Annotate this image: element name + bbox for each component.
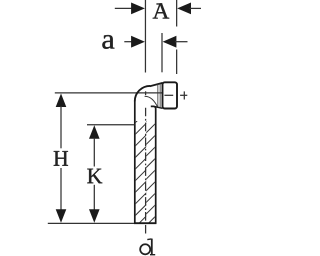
label d: foot serif — [150, 254, 155, 256]
elbow bottom taper to socket — [154, 107, 162, 109]
socket body — [163, 82, 178, 108]
dimension K: top extension line — [87, 124, 135, 126]
dimension K: lower line — [93, 185, 95, 210]
pipe hatching right column — [145, 111, 157, 227]
dimension A: left extension line (pipe axis) — [144, 0, 146, 73]
dimension A: right extension line (lower segment) — [176, 50, 178, 75]
socket axis dash inside socket — [164, 94, 173, 96]
socket axis dash 2 — [180, 94, 187, 96]
label A apex slab serif — [156, 3, 162, 4]
dimension A: left arrowhead — [131, 3, 145, 15]
dimension a: left arrowhead — [131, 36, 145, 48]
dimension K: bottom arrowhead (down) — [89, 209, 100, 223]
dimension a: left tail line — [124, 41, 132, 43]
dimension A: right extension line (upper segment) — [176, 0, 178, 27]
socket axis end tick — [183, 91, 185, 99]
label d: top serif — [147, 238, 151, 241]
dimension H: lower line — [60, 168, 62, 210]
dimension H: label H — [54, 151, 68, 166]
H reference line (outlet axis, left extension) — [55, 92, 162, 94]
dimension H: bottom arrowhead (down) — [56, 209, 67, 223]
elbow top edge with taper to socket — [150, 83, 163, 86]
dimension a: middle extension line (socket face) — [161, 33, 163, 72]
baseline extension to the left — [48, 222, 134, 224]
elbow outer bend arc — [135, 86, 150, 101]
dimension A: left tail line — [115, 7, 133, 9]
dimension A: right tail line — [190, 7, 202, 9]
dimension a: label a — [102, 35, 114, 49]
socket axis dash 1 — [164, 94, 173, 96]
elbow bottom edge — [151, 106, 156, 108]
pipe hatching left column — [134, 110, 148, 228]
socket face ring line 1 — [157, 84, 159, 107]
dimension A: label A — [153, 3, 170, 18]
pipe axis cross tick at outlet axis — [145, 91, 147, 95]
dimension K: top arrowhead (up) — [89, 125, 100, 139]
pipe centerline lower stub below pipe end — [145, 225, 147, 234]
pipe right wall — [155, 109, 157, 224]
label d: bowl — [140, 244, 150, 254]
pipe centerline (vertical dash-dot) — [145, 108, 147, 223]
dimension a: right arrowhead — [163, 36, 177, 48]
dimension A: right arrowhead — [177, 3, 191, 15]
dimension K: upper line — [93, 138, 95, 167]
dimension H: top arrowhead (up) — [56, 94, 67, 108]
elbow inner bore curve — [145, 96, 158, 107]
pipe bottom edge (thick) — [134, 222, 156, 224]
pipe left wall — [134, 101, 136, 224]
dimension H: upper line — [60, 106, 62, 148]
label d: stem — [151, 239, 153, 255]
dimension a: right tail line — [175, 41, 188, 43]
socket face ring line 2 — [159, 84, 161, 108]
dimension K: label K — [87, 169, 102, 184]
